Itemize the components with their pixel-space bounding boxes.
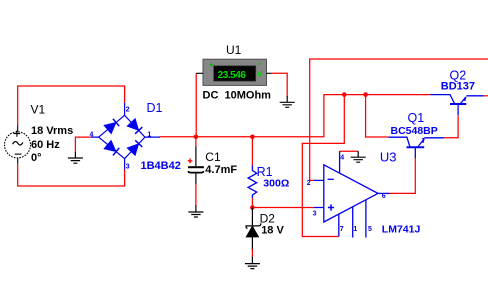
transistor Q1 bbox=[388, 137, 444, 158]
wire rail2 down to pin7 loop bbox=[302, 95, 344, 237]
wire node to opamp pin3 bbox=[252, 207, 314, 209]
bridge rectifier D1 bbox=[91, 103, 160, 170]
ground below D2 bbox=[245, 257, 260, 269]
svg-text:18 Vrms: 18 Vrms bbox=[31, 125, 73, 137]
wire rail to opamp pin2 bbox=[310, 179, 314, 181]
svg-text:BD137: BD137 bbox=[441, 80, 475, 92]
transistor Q2 bbox=[430, 95, 483, 116]
svg-text:DC 10MOhm: DC 10MOhm bbox=[203, 90, 272, 102]
junction node R1/D2/pin3 bbox=[250, 205, 255, 210]
multimeter U1 body bbox=[203, 59, 267, 85]
junction node rail2 feedback bbox=[342, 92, 347, 97]
svg-text:1: 1 bbox=[147, 132, 151, 139]
wire source top to bridge pin2 bbox=[18, 86, 125, 125]
svg-text:0°: 0° bbox=[31, 152, 42, 164]
capacitor C1 bbox=[188, 147, 204, 185]
wire C1 branch down bbox=[195, 137, 197, 147]
resistor R1 bbox=[248, 165, 257, 198]
svg-text:4.7mF: 4.7mF bbox=[205, 164, 237, 176]
C1 plus mark bbox=[188, 159, 193, 164]
svg-text:V1: V1 bbox=[31, 103, 46, 117]
svg-text:D1: D1 bbox=[147, 101, 163, 115]
svg-text:V: V bbox=[257, 69, 263, 79]
svg-text:LM741J: LM741J bbox=[382, 223, 421, 235]
AC source V1 bbox=[5, 125, 31, 164]
zener diode D2 bbox=[246, 208, 261, 250]
wire main bus bbox=[160, 95, 431, 137]
svg-text:2: 2 bbox=[126, 107, 130, 114]
junction node bus/U1/C1 bbox=[194, 135, 199, 140]
svg-text:-: - bbox=[258, 59, 261, 69]
wire R1 to node bbox=[251, 198, 253, 207]
svg-text:3: 3 bbox=[126, 164, 130, 171]
Q1 emitter arrow bbox=[421, 138, 425, 143]
svg-text:7: 7 bbox=[340, 226, 344, 233]
diode D1 top-left bbox=[105, 119, 120, 133]
svg-text:60 Hz: 60 Hz bbox=[31, 139, 60, 151]
svg-text:D2: D2 bbox=[260, 211, 276, 225]
svg-text:U1: U1 bbox=[226, 43, 242, 57]
svg-text:U3: U3 bbox=[380, 150, 397, 165]
svg-text:23.546: 23.546 bbox=[218, 70, 247, 81]
Q2 emitter arrow bbox=[463, 96, 466, 101]
svg-text:1B4B42: 1B4B42 bbox=[141, 160, 181, 172]
wire bridge pin4 to ground bbox=[75, 137, 90, 152]
wire U1 right terminal to ground bbox=[272, 73, 287, 96]
diode D1 bottom-left bbox=[105, 141, 120, 155]
svg-text:300Ω: 300Ω bbox=[263, 178, 289, 190]
wire Q2 emitter lead right edge bbox=[484, 95, 488, 97]
svg-text:18 V: 18 V bbox=[261, 224, 284, 236]
ground at opamp pin4 bbox=[351, 151, 366, 162]
wire opamp pin4 to ground bbox=[340, 150, 359, 152]
wire opamp output to Q1 collector bbox=[390, 158, 416, 193]
wire source bottom to bridge pin3 bbox=[18, 164, 125, 186]
ground at bridge pin4 bbox=[68, 152, 83, 163]
junction node rail2 Q1 base bbox=[363, 92, 368, 97]
ground right of U1 bbox=[280, 96, 295, 107]
op-amp U3 bbox=[314, 151, 390, 237]
wire D2 to ground bbox=[251, 249, 253, 257]
ground below C1 bbox=[188, 205, 203, 217]
svg-text:5: 5 bbox=[368, 226, 372, 233]
svg-text:+: + bbox=[209, 59, 214, 69]
wire R1 branch down bbox=[251, 137, 253, 165]
svg-text:4: 4 bbox=[340, 155, 344, 162]
svg-text:C1: C1 bbox=[205, 150, 221, 164]
diode D1 bottom-right bbox=[128, 140, 143, 155]
opamp minus sign bbox=[328, 178, 334, 180]
wire Q1 emitter to Q2 collector bbox=[444, 115, 458, 138]
svg-text:6: 6 bbox=[382, 193, 386, 200]
multimeter U1 display bbox=[214, 66, 256, 81]
wire rail2 down to Q1 base bbox=[366, 95, 389, 137]
svg-text:BC548BP: BC548BP bbox=[391, 125, 438, 137]
multimeter terminals bbox=[196, 72, 272, 74]
svg-text:Q1: Q1 bbox=[408, 111, 425, 125]
diode D1 top-right bbox=[128, 119, 143, 134]
svg-text:2: 2 bbox=[307, 180, 311, 187]
svg-text:4: 4 bbox=[90, 132, 94, 139]
junction node bus/R1 bbox=[250, 135, 255, 140]
wire C1 to ground bbox=[195, 184, 197, 206]
svg-text:3: 3 bbox=[313, 211, 317, 218]
svg-text:1: 1 bbox=[353, 226, 357, 233]
wire U1 left terminal down to bus bbox=[195, 73, 197, 137]
opamp plus sign bbox=[328, 204, 334, 210]
wire top rail right bbox=[310, 59, 488, 180]
